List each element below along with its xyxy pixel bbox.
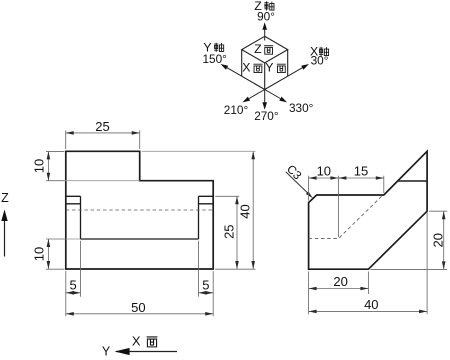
label Y (bottom)	[102, 344, 111, 358]
svg-text:270°: 270°	[254, 109, 279, 123]
svg-text:Z: Z	[1, 191, 9, 205]
bottom view axis: Y arrow and X plane label	[115, 348, 177, 355]
hidden line (dashed)	[66, 209, 213, 211]
ray 330	[265, 90, 288, 105]
label X axis	[310, 45, 329, 59]
inner step edges left wall	[66, 196, 81, 239]
inner step edges right wall	[199, 196, 214, 239]
svg-text:50: 50	[131, 300, 145, 315]
label Z axis	[254, 0, 274, 13]
label 90deg	[257, 9, 275, 23]
svg-text:20: 20	[430, 233, 445, 247]
svg-text:20: 20	[333, 274, 347, 289]
label X plane (bottom)	[132, 333, 158, 348]
svg-text:Z: Z	[254, 42, 262, 56]
C3 chamfer leader	[284, 162, 314, 200]
dim 10 (side view top)	[309, 176, 339, 238]
svg-text:330°: 330°	[289, 101, 314, 115]
dim 5 bottom right	[199, 241, 214, 316]
label Z (left margin)	[1, 191, 9, 205]
ray 210	[241, 90, 264, 105]
dim 25 right	[215, 196, 239, 269]
svg-text:Y: Y	[265, 61, 273, 75]
svg-text:10: 10	[31, 247, 46, 261]
dim 20 (side view bottom-left)	[309, 272, 369, 315]
dim 10 upper left	[46, 151, 65, 180]
label X face (left face)	[242, 61, 262, 75]
hidden slot edges (dashed)	[309, 195, 383, 238]
svg-text:15: 15	[354, 163, 368, 178]
ray 150 (Y axis)	[219, 62, 241, 76]
svg-text:25: 25	[95, 119, 109, 134]
cube	[242, 36, 288, 89]
svg-text:90°: 90°	[257, 9, 275, 23]
label 150deg	[202, 52, 227, 66]
label 210deg	[224, 103, 249, 117]
dim 5 bottom left	[66, 241, 81, 316]
svg-text:150°: 150°	[202, 52, 227, 66]
svg-text:25: 25	[222, 224, 237, 238]
dim 40 (side view bottom)	[309, 212, 428, 314]
dim 20 (side view right)	[370, 211, 447, 269]
label Y axis	[203, 41, 223, 55]
svg-text:40: 40	[364, 297, 378, 312]
svg-text:Y: Y	[102, 344, 111, 358]
svg-text:30°: 30°	[311, 54, 329, 68]
dim 40 right	[215, 151, 255, 269]
label 270deg	[254, 109, 279, 123]
dim 50 bottom	[66, 313, 213, 315]
dim 15 (side view top)	[338, 176, 383, 193]
outline with C3 chamfer	[309, 151, 428, 269]
svg-text:10: 10	[31, 159, 46, 173]
dim 10 lower left	[46, 239, 66, 269]
svg-text:10: 10	[317, 163, 331, 178]
svg-text:210°: 210°	[224, 103, 249, 117]
svg-text:X: X	[242, 61, 250, 75]
ray 270	[262, 90, 267, 110]
ray 30 (X axis)	[288, 62, 310, 76]
dim 25 top	[66, 130, 140, 149]
label Y face (right face)	[265, 61, 286, 75]
slot bottom edge	[81, 238, 199, 240]
outline	[66, 151, 213, 269]
svg-text:40: 40	[237, 204, 252, 218]
label Z face (top face)	[254, 42, 273, 56]
ray 90 (Z axis)	[262, 22, 267, 40]
svg-text:5: 5	[69, 277, 76, 292]
inner top edge of lower section	[397, 180, 427, 182]
svg-text:5: 5	[202, 277, 209, 292]
Z direction indicator (left margin)	[1, 210, 7, 257]
label 30deg	[311, 54, 329, 68]
label 330deg	[289, 101, 314, 115]
svg-text:X: X	[132, 333, 141, 348]
